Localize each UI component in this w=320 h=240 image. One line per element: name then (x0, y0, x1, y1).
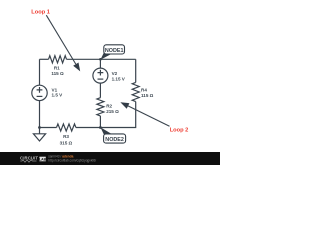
wire node A down to V2 (99, 59, 101, 68)
wire V1 bottom to ground junction (39, 101, 41, 128)
svg-text:V2: V2 (112, 71, 118, 76)
wire node A to top-right corner (100, 58, 135, 60)
svg-text:115 Ω: 115 Ω (51, 71, 64, 76)
svg-text:R2: R2 (106, 104, 112, 109)
node A junction dot (99, 58, 102, 61)
node NODE1 label box (104, 45, 125, 54)
resistor R3 (57, 124, 76, 131)
node NODE1 pointer wedge (100, 53, 111, 60)
wire R2 to node B (99, 116, 101, 128)
svg-text:R3: R3 (63, 134, 69, 139)
junction dot at ground node (38, 126, 41, 129)
R4 value label (141, 88, 154, 98)
node B junction dot (99, 126, 102, 129)
watermark bar (0, 152, 220, 165)
V1 value label (52, 87, 64, 97)
svg-text:Loop 1: Loop 1 (31, 10, 50, 16)
svg-text:Loop 2: Loop 2 (170, 128, 189, 134)
wire top-left horizontal (corner to R1) (40, 58, 49, 60)
R2 value label (106, 104, 119, 115)
wire R4 down and left to node B (100, 102, 135, 128)
wire ground junction to R3 (40, 127, 57, 129)
resistor R4 (132, 82, 139, 101)
wire V2 to R2 (99, 83, 101, 98)
svg-text:R1: R1 (54, 66, 60, 71)
wire left vertical top (V1 top to top-left corner) (39, 59, 41, 85)
voltage source V2 (93, 68, 108, 83)
svg-text:1.15 V: 1.15 V (112, 77, 126, 82)
annotation Loop 1 arrow (46, 15, 80, 71)
watermark CircuitLab logo (20, 155, 47, 162)
watermark credit text line 1 (48, 154, 73, 158)
wire R1 to node A (67, 58, 101, 60)
R3 value label (60, 134, 73, 145)
R1 value label (51, 66, 64, 77)
svg-text:http://circuitlab.com/cqbtzyqg: http://circuitlab.com/cqbtzyqgvkfdr (48, 158, 97, 162)
svg-text:R4: R4 (141, 88, 147, 93)
V2 value label (112, 71, 126, 82)
svg-text:1.5 V: 1.5 V (52, 93, 64, 98)
svg-text:315 Ω: 315 Ω (60, 141, 73, 146)
resistor R2 (97, 98, 104, 116)
svg-text:115 Ω: 115 Ω (141, 93, 154, 98)
resistor R1 (49, 56, 67, 63)
watermark credit text line 2 (48, 158, 97, 162)
node NODE2 label box (104, 134, 126, 143)
svg-text:NODE2: NODE2 (105, 137, 124, 143)
wire R3 to node B (76, 127, 101, 129)
svg-text:V1: V1 (52, 87, 58, 92)
voltage source V1 (32, 85, 47, 100)
annotation Loop 2 arrow (120, 102, 169, 126)
ground (33, 128, 45, 142)
svg-text:LAB: LAB (39, 158, 47, 162)
svg-text:215 Ω: 215 Ω (106, 109, 119, 114)
svg-text:NODE1: NODE1 (105, 48, 124, 54)
wire right vertical (corner down to R4) (135, 59, 137, 82)
node NODE2 pointer wedge (100, 127, 111, 134)
